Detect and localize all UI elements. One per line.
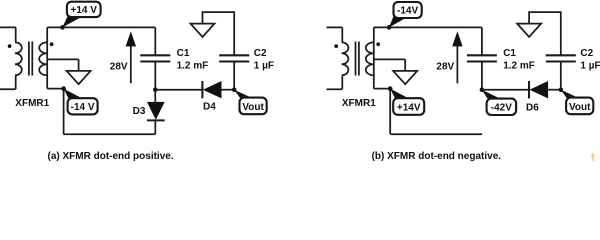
net label -14 V (bottom) bbox=[64, 89, 84, 100]
transformer core bbox=[29, 42, 32, 76]
voltage arrow 28V bbox=[130, 45, 132, 83]
svg-text:D3: D3 bbox=[133, 106, 146, 117]
voltage arrow 28V bbox=[456, 45, 458, 83]
secondary winding of XFMR1 bbox=[373, 27, 375, 88]
transformer XFMR1 (b panel) primary top wire bbox=[327, 26, 343, 28]
diode D6 anode lead bbox=[548, 89, 561, 91]
svg-text:+14V: +14V bbox=[397, 102, 421, 113]
svg-text:Vout: Vout bbox=[569, 102, 591, 113]
secondary polarity dot bbox=[376, 42, 380, 46]
svg-text:-14V: -14V bbox=[397, 6, 418, 17]
svg-text:1 µF: 1 µF bbox=[580, 61, 600, 72]
capacitor C1 bottom lead bbox=[154, 62, 156, 90]
svg-text:(a) XFMR dot-end positive.: (a) XFMR dot-end positive. bbox=[48, 151, 174, 162]
diode D4 bbox=[201, 81, 203, 98]
svg-text:(b) XFMR dot-end negative.: (b) XFMR dot-end negative. bbox=[372, 151, 502, 162]
primary winding of XFMR1 bbox=[15, 27, 22, 89]
svg-text:C1: C1 bbox=[177, 48, 190, 59]
net label Vout bbox=[234, 90, 254, 99]
capacitor C2 bottom lead bbox=[560, 62, 562, 90]
wire: secondary center tap bbox=[47, 58, 78, 60]
wire: secondary center tap bbox=[374, 58, 405, 60]
wire: bottom rail bbox=[64, 133, 156, 135]
node -14V junction dot bbox=[387, 25, 392, 30]
wire: top rail to C1 bbox=[47, 26, 155, 28]
diode D6 cathode lead bbox=[482, 89, 529, 91]
net label Vout bbox=[561, 90, 581, 99]
svg-text:1.2 mF: 1.2 mF bbox=[177, 61, 209, 72]
svg-text:XFMR1: XFMR1 bbox=[342, 98, 376, 109]
diode D4 cathode lead bbox=[155, 89, 202, 91]
diode D3 bbox=[147, 102, 165, 120]
transformer XFMR1 (a panel) primary top wire bbox=[0, 26, 16, 28]
node +14V junction dot bbox=[388, 86, 393, 91]
ground (center tap) bbox=[404, 59, 406, 71]
svg-text:D4: D4 bbox=[203, 101, 216, 112]
wire: primary bottom lead bbox=[327, 88, 343, 90]
capacitor C1 top lead bbox=[154, 27, 156, 55]
secondary winding of XFMR1 bbox=[46, 27, 48, 88]
svg-text:XFMR1: XFMR1 bbox=[15, 98, 49, 109]
svg-text:C2: C2 bbox=[580, 48, 593, 59]
net label -14V (top) bbox=[389, 15, 408, 27]
svg-text:-42V: -42V bbox=[491, 102, 512, 113]
capacitor C1 bbox=[140, 55, 170, 61]
node under C1 (junction dot) bbox=[480, 87, 485, 92]
capacitor C2 top lead to ground bbox=[529, 12, 561, 55]
svg-text:D6: D6 bbox=[526, 102, 539, 113]
ground (C2) bbox=[517, 24, 541, 37]
capacitor C2 top lead to ground bbox=[203, 12, 235, 55]
wire: secondary bottom lead bbox=[47, 89, 63, 135]
node under C1 (junction dot) bbox=[153, 87, 158, 92]
svg-text:1.2 mF: 1.2 mF bbox=[503, 61, 535, 72]
ground (center tap) bbox=[78, 59, 80, 71]
capacitor C2 bottom lead bbox=[233, 62, 235, 90]
primary winding of XFMR1 bbox=[342, 27, 349, 89]
primary polarity dot bbox=[334, 44, 338, 48]
wire: bottom rail stub bbox=[390, 133, 482, 135]
diode D4 anode lead bbox=[222, 89, 235, 91]
wire: primary bottom lead bbox=[0, 88, 16, 90]
capacitor C1 top lead bbox=[481, 27, 483, 55]
diode D3 anode lead bbox=[154, 90, 156, 102]
svg-text:Vout: Vout bbox=[242, 102, 264, 113]
wire: top rail to C1 bbox=[374, 26, 482, 28]
transformer core bbox=[356, 42, 359, 76]
wire: secondary bottom lead bbox=[374, 89, 390, 135]
svg-text:+14 V: +14 V bbox=[70, 5, 97, 16]
capacitor C2 bbox=[546, 55, 576, 61]
svg-text:1 µF: 1 µF bbox=[254, 61, 274, 72]
diode D6 bbox=[528, 81, 530, 98]
node -14V junction dot bbox=[61, 86, 66, 91]
capacitor C1 bottom lead bbox=[481, 62, 483, 90]
capacitor C1 bbox=[467, 55, 497, 61]
svg-text:t: t bbox=[591, 150, 595, 164]
net label +14 V (top) bbox=[62, 15, 82, 28]
svg-text:28V: 28V bbox=[436, 61, 454, 72]
node Vout junction dot bbox=[232, 87, 237, 92]
svg-text:C2: C2 bbox=[254, 48, 267, 59]
diode D3 cathode lead bbox=[154, 120, 156, 134]
svg-text:28V: 28V bbox=[110, 61, 128, 72]
net label -42V at C1 junction bbox=[482, 90, 502, 100]
net label +14V (bottom) bbox=[390, 89, 410, 100]
svg-text:-14 V: -14 V bbox=[71, 102, 95, 113]
svg-text:C1: C1 bbox=[503, 48, 516, 59]
capacitor C2 bbox=[219, 55, 249, 61]
node Vout junction dot bbox=[559, 87, 564, 92]
node +14V junction dot bbox=[60, 25, 65, 30]
ground (C2) bbox=[191, 24, 215, 37]
secondary polarity dot bbox=[50, 42, 54, 46]
primary polarity dot bbox=[8, 44, 12, 48]
